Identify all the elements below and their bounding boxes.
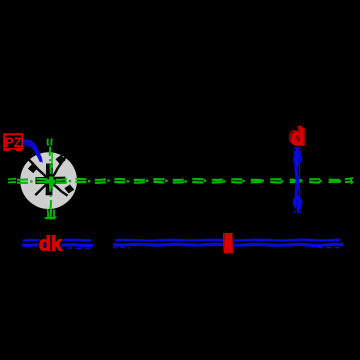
horizontal centerline end tick left (8, 179, 16, 183)
pozidriv recess vertical slot (46, 163, 53, 195)
vertical centerline dash-dot (50, 147, 51, 210)
dimension line dk upper stroke (23, 238, 91, 241)
pozidriv diagonal NE (51, 157, 66, 180)
label dk (39, 234, 63, 256)
dimension line l echo dashes left (113, 246, 130, 249)
horizontal centerline dash-dot upper stroke (17, 179, 345, 180)
vertical centerline echo stroke (51, 152, 53, 168)
dimension arrow d lower arrowhead (294, 196, 302, 214)
PZ leader arrowhead (39, 156, 43, 164)
dimension line l upper stroke (115, 240, 341, 241)
pozidriv diagonal SE (51, 183, 68, 196)
vertical centerline end ticks bottom (45, 209, 57, 219)
svg-text:dk: dk (39, 234, 63, 256)
horizontal centerline end tick right (345, 178, 353, 185)
pozidriv recess horizontal slot (35, 177, 65, 184)
PZ leader line (sketchy swoosh) (24, 140, 42, 162)
pozidriv tick diamond NE (55, 154, 66, 165)
pozidriv diagonal NW (28, 158, 49, 179)
dimension line dk lower stroke (22, 243, 93, 247)
pozidriv tick diamond SE (64, 184, 75, 195)
dimension arrow d upper arrowhead (294, 147, 302, 165)
dimension line dk echo dashes (58, 247, 90, 250)
pozidriv tick diamond NW (27, 163, 38, 173)
pozidriv diagonal SW (35, 183, 48, 196)
center cross green highlight (45, 177, 55, 189)
dimension line l lower stroke (113, 244, 343, 245)
dimension line l echo dashes right (318, 246, 341, 248)
horizontal centerline dash-dot lower echo stroke (17, 182, 345, 183)
horizontal centerline dots (17, 181, 345, 182)
vertical centerline end ticks top (48, 138, 52, 145)
label l (224, 233, 233, 252)
svg-text:PZ: PZ (5, 135, 22, 150)
label d (289, 123, 306, 151)
dimension arrow d shaft (295, 151, 300, 212)
svg-text:d: d (292, 125, 306, 151)
label PZ box (4, 134, 23, 151)
screw head disc (dk face) (20, 152, 77, 209)
